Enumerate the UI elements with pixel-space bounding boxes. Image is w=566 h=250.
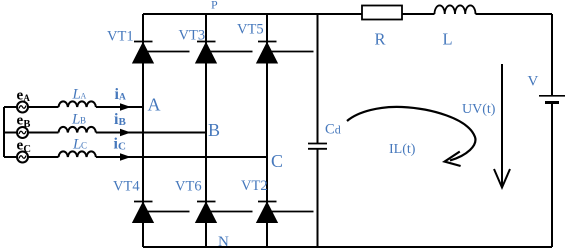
thyristor VT3 bbox=[197, 42, 253, 63]
svg-text:C: C bbox=[81, 141, 87, 151]
svg-text:IL(t): IL(t) bbox=[389, 142, 416, 157]
svg-text:L: L bbox=[71, 112, 80, 128]
svg-text:V: V bbox=[528, 74, 539, 90]
svg-text:B: B bbox=[119, 116, 127, 128]
wire: bridge leg 2 bbox=[205, 14, 207, 247]
wire: phase C source to inductor bbox=[28, 156, 59, 158]
wire: bottom rail node N bbox=[143, 246, 552, 248]
wire: right edge bottom bbox=[551, 104, 553, 248]
battery V bbox=[539, 95, 565, 97]
inductor LB bbox=[59, 127, 96, 133]
svg-text:B: B bbox=[208, 120, 220, 140]
wire: top rail node P bbox=[143, 13, 552, 15]
svg-text:d: d bbox=[335, 123, 341, 137]
svg-text:VT5: VT5 bbox=[237, 22, 264, 38]
svg-text:UV(t): UV(t) bbox=[462, 102, 496, 117]
current arrow iC bbox=[120, 153, 131, 161]
wire: phase C inductor to node C bbox=[96, 156, 267, 158]
svg-text:L: L bbox=[443, 30, 453, 49]
wire: phase A source to inductor bbox=[28, 106, 59, 108]
svg-text:VT2: VT2 bbox=[241, 178, 268, 194]
thyristor VT1 bbox=[134, 42, 190, 63]
svg-text:B: B bbox=[23, 119, 30, 130]
svg-text:C: C bbox=[23, 144, 31, 155]
inductor L bbox=[435, 5, 476, 14]
svg-text:A: A bbox=[148, 95, 161, 115]
svg-text:R: R bbox=[375, 30, 386, 49]
svg-text:VT6: VT6 bbox=[175, 179, 202, 195]
AC source eB bbox=[17, 127, 28, 138]
svg-text:VT1: VT1 bbox=[107, 29, 134, 45]
wire: right edge top bbox=[551, 14, 553, 95]
resistor R bbox=[362, 6, 402, 20]
thyristor VT2 bbox=[258, 202, 314, 223]
svg-text:L: L bbox=[72, 137, 81, 153]
svg-text:VT3: VT3 bbox=[179, 28, 206, 44]
thyristor VT4 bbox=[134, 202, 190, 223]
inductor LA bbox=[59, 101, 96, 107]
capacitor Cd vertical wire bbox=[317, 14, 319, 247]
AC source eA bbox=[17, 102, 28, 113]
svg-text:A: A bbox=[23, 93, 30, 103]
svg-text:N: N bbox=[218, 234, 229, 250]
wire: phase C from bus to source bbox=[4, 156, 17, 158]
svg-text:B: B bbox=[80, 116, 86, 126]
wire: bridge leg 3 bbox=[266, 14, 268, 247]
svg-text:C: C bbox=[118, 141, 126, 153]
svg-text:C: C bbox=[271, 151, 283, 171]
wire: left neutral bus bbox=[3, 107, 5, 157]
svg-text:L: L bbox=[72, 87, 81, 103]
current arrow iA bbox=[120, 103, 131, 111]
current arrow iB bbox=[120, 129, 131, 137]
thyristor VT5 bbox=[258, 42, 314, 63]
wire: phase B inductor to node B bbox=[96, 132, 206, 134]
wire: phase A inductor to node A bbox=[96, 106, 143, 108]
wire: phase A from bus to source bbox=[4, 106, 17, 108]
wire: phase B source to inductor bbox=[28, 132, 59, 134]
AC source eC bbox=[17, 152, 28, 163]
svg-text:A: A bbox=[81, 92, 87, 101]
wire: bridge leg 1 bbox=[142, 14, 144, 247]
wire: phase B from bus to source bbox=[4, 132, 17, 134]
svg-text:VT4: VT4 bbox=[113, 179, 140, 195]
curved arrow IL(t) bbox=[347, 107, 475, 166]
arrow UV(t) bbox=[494, 64, 510, 188]
capacitor Cd plates bbox=[308, 144, 327, 149]
svg-text:C: C bbox=[325, 122, 335, 138]
svg-text:P: P bbox=[211, 0, 218, 12]
inductor LC bbox=[59, 151, 96, 157]
thyristor VT6 bbox=[197, 202, 253, 223]
svg-text:A: A bbox=[119, 93, 126, 103]
